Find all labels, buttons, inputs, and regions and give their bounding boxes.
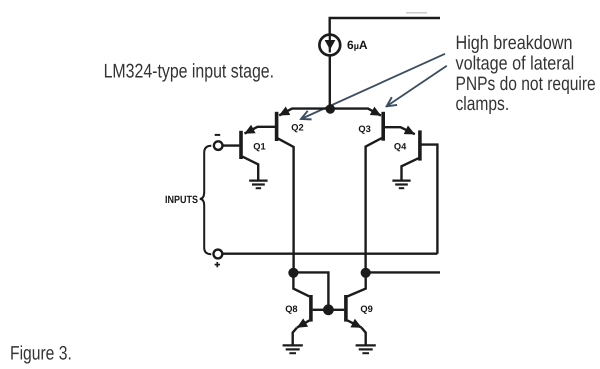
- svg-text:INPUTS: INPUTS: [165, 194, 198, 206]
- svg-text:Figure 3.: Figure 3.: [10, 342, 72, 364]
- svg-text:Q2: Q2: [291, 123, 303, 133]
- svg-text:High breakdown: High breakdown: [456, 32, 573, 54]
- svg-text:6µA: 6µA: [347, 38, 368, 52]
- svg-text:Q8: Q8: [285, 304, 297, 314]
- svg-text:Q9: Q9: [360, 304, 372, 314]
- svg-text:Q4: Q4: [394, 141, 407, 151]
- svg-text:PNPs do not require: PNPs do not require: [456, 73, 596, 95]
- svg-text:voltage of lateral: voltage of lateral: [456, 53, 575, 75]
- svg-text:Q1: Q1: [253, 142, 265, 152]
- svg-text:clamps.: clamps.: [456, 93, 510, 115]
- svg-text:Q3: Q3: [358, 124, 370, 134]
- svg-text:LM324-type input stage.: LM324-type input stage.: [104, 61, 274, 83]
